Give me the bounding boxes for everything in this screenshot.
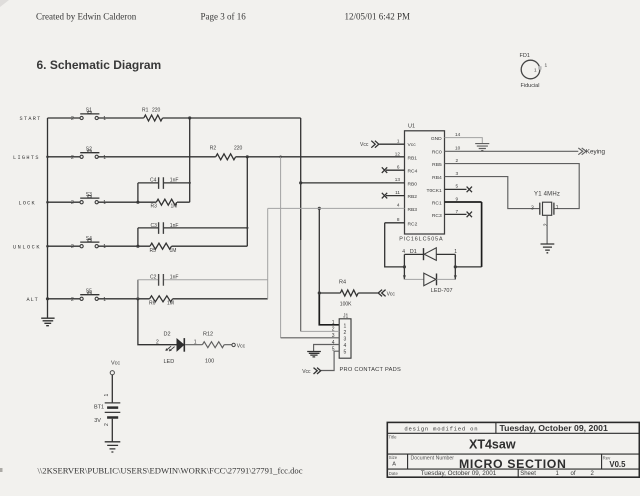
power pin Vcc at R12 <box>232 343 246 349</box>
svg-text:2: 2 <box>156 340 159 346</box>
svg-text:10: 10 <box>455 146 461 151</box>
wire S1 to R1 <box>98 117 144 119</box>
switch S3 <box>71 192 106 206</box>
svg-text:MICRO SECTION: MICRO SECTION <box>459 457 567 471</box>
svg-text:Vcc: Vcc <box>111 361 120 367</box>
svg-text:LED-707: LED-707 <box>431 288 453 294</box>
wire S4 to combo <box>98 245 150 247</box>
diode D1 bottom (points right) <box>404 273 455 286</box>
svg-text:2: 2 <box>456 158 459 163</box>
svg-text:LED: LED <box>164 359 175 365</box>
LED pair D1 left vertical <box>403 254 405 279</box>
svg-text:design modified on: design modified on <box>404 425 478 432</box>
svg-text:Sheet: Sheet <box>520 471 536 477</box>
svg-text:100: 100 <box>205 359 214 365</box>
resistor R6 <box>149 296 174 307</box>
svg-text:1: 1 <box>332 320 335 326</box>
wire pin 2 RB5 to crystal right <box>445 164 580 209</box>
power symbol Vcc at J1 pin5 <box>302 368 321 375</box>
wire UNLOCK combo right vertical to R2 output <box>246 157 248 246</box>
junction bus/LIGHTS <box>46 156 49 159</box>
svg-text:1: 1 <box>397 139 400 144</box>
svg-text:1nF: 1nF <box>170 223 179 229</box>
svg-text:3: 3 <box>531 205 534 211</box>
connector J1 <box>332 314 351 359</box>
svg-text:RC4: RC4 <box>408 169 418 175</box>
wire J1 pin4 to ground <box>314 345 340 352</box>
wire pin 13 RB0 <box>301 182 405 184</box>
ground at pin 14 <box>475 144 489 151</box>
svg-text:Size: Size <box>389 455 398 460</box>
wire D1 right to RC1 <box>455 266 481 268</box>
svg-text:Y1 4MHz: Y1 4MHz <box>534 191 560 197</box>
svg-text:1nF: 1nF <box>170 275 179 281</box>
junction START/LOCK-combo <box>188 116 191 119</box>
svg-text:C2: C2 <box>150 275 157 281</box>
svg-text:1: 1 <box>103 297 106 303</box>
wire S3 to combo <box>98 201 156 203</box>
wire R1 output to corner <box>163 117 301 119</box>
svg-text:Vcc: Vcc <box>237 343 246 349</box>
battery BT1 <box>94 403 120 424</box>
wire left bus vertical <box>47 118 49 318</box>
capacitor C4 <box>138 177 190 189</box>
svg-text:R2: R2 <box>210 146 217 152</box>
wire pin 6 no-connect stub <box>386 169 405 171</box>
svg-text:of: of <box>571 471 576 477</box>
svg-text:2: 2 <box>104 423 110 426</box>
switch S2 <box>71 146 106 160</box>
svg-text:R12: R12 <box>203 332 213 338</box>
wire ALT combo left vertical <box>137 280 139 299</box>
crystal Y1 4MHz <box>531 191 560 215</box>
svg-text:RB4: RB4 <box>432 175 442 181</box>
svg-text:220: 220 <box>234 146 243 152</box>
svg-text:R1: R1 <box>142 108 149 114</box>
junction bus/LOCK <box>46 201 49 204</box>
svg-text:4: 4 <box>397 203 400 208</box>
wire S5 to combo <box>98 298 149 300</box>
wire pin 5 no-connect stub <box>445 188 467 190</box>
svg-text:\\2KSERVER\PUBLIC\USERS\EDWIN\: \\2KSERVER\PUBLIC\USERS\EDWIN\WORK\FCC\2… <box>38 466 303 476</box>
resistor R12 <box>202 332 231 365</box>
IC U1 PIC16LC505A <box>399 124 444 243</box>
title block <box>387 422 639 477</box>
junction LOCK combo left <box>136 201 139 204</box>
svg-text:PRO CONTACT PADS: PRO CONTACT PADS <box>340 367 402 373</box>
U1 left pin labels <box>408 142 418 227</box>
svg-text:1: 1 <box>534 68 537 73</box>
svg-text:2: 2 <box>71 116 74 122</box>
svg-text:RB5: RB5 <box>432 162 442 168</box>
resistor R3 <box>151 199 190 209</box>
svg-text:LOCK: LOCK <box>19 201 36 207</box>
svg-text:Page 3 of 16: Page 3 of 16 <box>201 12 247 22</box>
wire Vcc to battery <box>111 375 113 403</box>
svg-text:D2: D2 <box>164 332 171 338</box>
no-connect X pin 5 <box>467 187 472 193</box>
svg-text:UNLOCK: UNLOCK <box>13 245 41 251</box>
wire LOCK row left <box>48 201 81 203</box>
switch S5 <box>71 288 106 302</box>
svg-text:R4: R4 <box>339 280 346 286</box>
svg-text:220: 220 <box>152 108 161 114</box>
svg-text:11: 11 <box>395 190 400 195</box>
junction ALT combo left <box>136 297 139 300</box>
svg-text:Vcc: Vcc <box>360 142 369 148</box>
wire pin 11 no-connect stub <box>386 195 405 197</box>
wire pin 14 GND <box>445 138 483 144</box>
diode D1 top (points left) <box>404 248 455 261</box>
svg-text:1: 1 <box>344 323 347 329</box>
power symbol Vcc battery <box>110 361 120 375</box>
svg-text:12/05/01 6:42 PM: 12/05/01 6:42 PM <box>345 12 411 22</box>
U1 right pin numbers <box>455 132 461 214</box>
wire RC1 vertical <box>481 202 483 267</box>
svg-text:1: 1 <box>103 116 106 122</box>
wire RC2 pin8 down to LED pair <box>385 223 405 267</box>
svg-text:V0.5: V0.5 <box>609 460 626 469</box>
LED pair D1 right vertical <box>454 254 456 279</box>
svg-text:T0CK1: T0CK1 <box>426 188 442 194</box>
U1 left pin numbers <box>395 139 401 223</box>
svg-text:A: A <box>392 461 396 467</box>
wire D2 to R12 <box>185 344 202 346</box>
svg-text:LIGHTS: LIGHTS <box>13 155 40 161</box>
capacitor C3 <box>138 222 247 234</box>
wire J1 pin2 stub <box>301 330 340 332</box>
svg-text:RC3: RC3 <box>432 213 442 219</box>
svg-text:R6: R6 <box>149 300 156 306</box>
svg-text:6: 6 <box>397 164 400 169</box>
wire R2-node vertical to J1 pin3 <box>280 157 282 338</box>
svg-text:PIC16LC505A: PIC16LC505A <box>399 236 443 242</box>
svg-text:BT1: BT1 <box>94 405 104 411</box>
svg-text:Created by Edwin Calderon: Created by Edwin Calderon <box>36 12 137 22</box>
junction bus/ALT <box>46 297 49 300</box>
svg-text:Vcc: Vcc <box>408 142 417 148</box>
wire START vertical to J1 pin2 <box>300 118 302 240</box>
resistor R2 <box>210 146 243 160</box>
wire ALT node down to LED D2 <box>138 299 177 345</box>
U1 right pin labels <box>426 136 442 219</box>
wire RB3-node vertical to R4 and J1 pin1 <box>318 208 320 293</box>
junction C4/right vertical <box>189 182 191 184</box>
wire J1 pin3 stub <box>281 337 340 339</box>
wire pin 8 RC2 stub <box>385 222 405 224</box>
junction D1 right <box>454 265 457 268</box>
svg-text:C4: C4 <box>150 177 157 183</box>
svg-text:1M: 1M <box>170 248 177 254</box>
no-connect X pin 7 <box>467 212 472 218</box>
svg-text:1: 1 <box>545 63 548 69</box>
svg-text:1M: 1M <box>167 300 174 306</box>
svg-text:1nF: 1nF <box>170 177 179 183</box>
svg-text:5: 5 <box>456 184 459 189</box>
svg-text:Vcc: Vcc <box>302 369 311 375</box>
svg-text:5: 5 <box>344 350 347 356</box>
power symbol Vcc at pin 1 <box>360 141 379 149</box>
wire J1 pin5 to Vcc <box>321 351 340 370</box>
svg-text:100K: 100K <box>340 301 352 307</box>
svg-text:GND: GND <box>431 136 442 142</box>
svg-text:4: 4 <box>344 343 347 349</box>
svg-text:R5: R5 <box>150 248 157 254</box>
off-page arrow Keying <box>578 148 605 156</box>
svg-text:C3: C3 <box>151 223 158 229</box>
svg-text:Tuesday, October 09, 2001: Tuesday, October 09, 2001 <box>500 423 608 433</box>
junction C3/right vertical <box>246 227 248 229</box>
svg-text:3V: 3V <box>94 418 101 424</box>
LED D2 <box>156 332 197 365</box>
resistor R5 <box>150 243 248 254</box>
svg-text:2: 2 <box>344 330 347 336</box>
resistor R4 <box>319 280 378 308</box>
svg-text:2: 2 <box>71 200 74 206</box>
switch S4 <box>71 236 106 250</box>
svg-text:Tuesday, October 09, 2001: Tuesday, October 09, 2001 <box>421 470 497 477</box>
svg-text:RC0: RC0 <box>432 150 442 156</box>
svg-text:2: 2 <box>544 223 550 226</box>
wire LIGHTS row left <box>48 156 81 158</box>
wire LOCK combo left vertical <box>137 183 139 202</box>
junction RB3 row <box>318 207 321 210</box>
wire pin 7 no-connect stub <box>445 213 467 215</box>
wire crystal to ground <box>546 215 548 243</box>
svg-text:RB1: RB1 <box>408 156 418 162</box>
svg-text:1: 1 <box>556 205 559 211</box>
svg-text:2: 2 <box>71 155 74 161</box>
svg-text:RB3: RB3 <box>408 207 418 213</box>
left edge scan speck <box>0 468 3 472</box>
wire pin 4 RB3 <box>268 207 405 209</box>
svg-text:6. Schematic Diagram: 6. Schematic Diagram <box>37 58 162 72</box>
ground below bus <box>41 318 54 326</box>
svg-text:8: 8 <box>397 217 400 222</box>
wire battery to ground <box>111 419 113 442</box>
svg-text:RB0: RB0 <box>408 181 418 187</box>
svg-text:Keying: Keying <box>586 148 606 155</box>
junction R2/J1 pin3 branch <box>279 156 282 159</box>
svg-text:2: 2 <box>71 297 74 303</box>
wire S2 to R2 <box>98 156 216 158</box>
junction R2/UNLOCK-combo <box>246 155 249 158</box>
D1 pin end arrows <box>403 275 457 279</box>
wire Vcc to pin 1 <box>379 143 404 145</box>
svg-text:12: 12 <box>395 151 401 156</box>
svg-text:7: 7 <box>456 209 459 214</box>
wire pin 10 RC0 to Keying <box>445 150 579 152</box>
svg-text:U1: U1 <box>408 124 415 130</box>
svg-text:Fiducial: Fiducial <box>521 83 540 89</box>
svg-text:3: 3 <box>456 171 459 176</box>
wire pin 9 RC1 stub <box>445 201 482 203</box>
svg-text:1: 1 <box>103 200 106 206</box>
resistor R1 <box>142 108 163 122</box>
svg-text:Vcc: Vcc <box>387 292 396 298</box>
svg-text:1: 1 <box>103 244 106 250</box>
svg-text:14: 14 <box>455 132 461 137</box>
junction bus/UNLOCK <box>46 245 49 248</box>
svg-text:XT4saw: XT4saw <box>469 438 516 452</box>
ground at J1 pin4 <box>307 352 321 357</box>
svg-text:1: 1 <box>103 155 106 161</box>
fiducial FD1 <box>520 53 548 89</box>
junction R4/J1 <box>318 291 321 294</box>
svg-text:FD1: FD1 <box>520 53 530 59</box>
svg-text:3: 3 <box>344 336 347 342</box>
no-connect X pin 11 <box>382 193 387 199</box>
svg-text:2: 2 <box>71 244 74 250</box>
svg-text:Title: Title <box>389 434 398 439</box>
wire ALT row left <box>48 298 81 300</box>
svg-text:ALT: ALT <box>27 297 39 303</box>
no-connect X pin 6 <box>382 167 387 173</box>
svg-text:START: START <box>20 116 42 122</box>
wire pin 3 RB4 to crystal left <box>445 177 540 209</box>
svg-text:1M: 1M <box>171 203 178 209</box>
switch S1 <box>71 108 106 122</box>
power symbol Vcc at R4 <box>378 290 395 298</box>
svg-text:Date: Date <box>389 471 399 476</box>
svg-text:9: 9 <box>456 196 459 201</box>
svg-text:RB2: RB2 <box>408 194 418 200</box>
wire UNLOCK row left <box>48 245 81 247</box>
junction D1 left <box>403 265 406 268</box>
wire ALT row to combo right <box>173 298 268 300</box>
svg-text:Document Number: Document Number <box>411 455 455 461</box>
wire LOCK combo right vertical to START <box>189 118 191 202</box>
wire START row left <box>48 117 81 119</box>
junction START/RB0 <box>299 181 302 184</box>
ground below crystal <box>541 244 555 253</box>
svg-text:13: 13 <box>395 177 401 182</box>
wire R2 output to IC pin 12 <box>236 156 405 158</box>
wire ALT combo right vertical to RB3 row <box>267 208 269 298</box>
svg-text:RC1: RC1 <box>432 201 442 207</box>
junction UNLOCK combo left <box>136 245 139 248</box>
ground below battery <box>105 442 121 452</box>
corner scan smudge <box>0 0 9 7</box>
svg-text:RC2: RC2 <box>408 221 418 227</box>
svg-text:R3: R3 <box>151 203 158 209</box>
wire UNLOCK combo left vertical <box>137 228 139 246</box>
capacitor C2 <box>138 274 268 286</box>
svg-text:1: 1 <box>104 394 110 397</box>
